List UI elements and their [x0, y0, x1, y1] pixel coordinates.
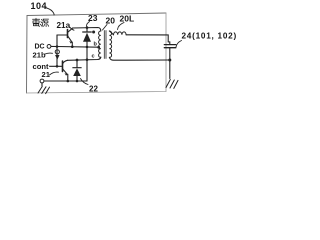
wire top rail — [73, 28, 101, 32]
svg-text:21b: 21b — [33, 51, 46, 60]
leader for 20L — [118, 23, 125, 30]
wire mid rail — [57, 46, 99, 49]
label 20 — [106, 15, 116, 25]
diode D23 — [86, 28, 88, 32]
svg-text:22: 22 — [89, 84, 98, 93]
node primary center tap — [97, 46, 100, 49]
node 21b emitter junction — [67, 80, 70, 83]
label c — [92, 54, 95, 60]
svg-text:20: 20 — [106, 15, 116, 25]
label 24(101, 102) — [182, 31, 237, 40]
wire diode 23 to bottom rail — [86, 42, 88, 81]
node diode 22 top junction — [76, 59, 79, 62]
transformer T20 secondary winding — [109, 31, 111, 57]
svg-text:21a: 21a — [57, 21, 71, 30]
label 21a — [57, 21, 71, 30]
node secondary return junction — [168, 59, 171, 62]
svg-text:21: 21 — [42, 70, 51, 79]
wire bottom rail — [44, 80, 87, 82]
leader for 21b with loop and arrow — [45, 52, 53, 55]
transformer phase dot — [92, 31, 95, 34]
leader for 24 — [176, 41, 182, 48]
wire base drive vertical — [56, 35, 58, 66]
leader for 104 — [45, 8, 54, 16]
leader for 21 lower — [50, 72, 59, 75]
wire inductor to cap corner — [126, 35, 170, 44]
svg-text:104: 104 — [31, 1, 48, 11]
node 21a emitter junction — [71, 45, 74, 48]
transistor Q 21a — [57, 34, 67, 36]
label DC — [35, 43, 45, 50]
leader for 21a — [70, 27, 75, 30]
leader for 23 — [87, 22, 90, 27]
label 104 — [31, 1, 48, 11]
label 22 — [89, 84, 98, 93]
ground left — [41, 83, 43, 86]
label 21b — [33, 51, 46, 60]
wire secondary top to inductor — [109, 31, 113, 35]
capacitor / lamp 24 plates — [164, 45, 176, 48]
terminal circle bottom — [40, 79, 44, 83]
svg-text:DC: DC — [35, 43, 45, 50]
leader for 22 — [81, 79, 89, 85]
label cont — [33, 62, 50, 71]
label 20L — [120, 13, 135, 23]
svg-text:20L: 20L — [120, 13, 135, 23]
DC terminal circle — [47, 45, 51, 49]
node mid vertical crossing — [86, 58, 89, 61]
node DC junction — [56, 45, 59, 48]
node diode 23 anode junction — [86, 46, 89, 49]
ground right — [166, 80, 178, 89]
wire secondary bottom return — [109, 57, 169, 60]
svg-text:c: c — [92, 54, 95, 60]
inductor 20L — [114, 32, 127, 35]
svg-text:24(101, 102): 24(101, 102) — [182, 31, 237, 40]
label 23 — [88, 13, 98, 23]
wire collector rail to primary bottom — [68, 57, 101, 60]
transistor Q 21b — [50, 65, 63, 67]
node diode 22 anode junction — [76, 80, 79, 83]
leader for 20 — [103, 25, 108, 31]
label 電源 (kanji drawn as strokes) — [33, 18, 49, 27]
transformer core — [104, 31, 106, 59]
diode D22 — [76, 60, 78, 68]
transformer T20 primary winding — [99, 31, 101, 57]
wire DC to vertical — [51, 45, 57, 47]
label 21 lower — [42, 70, 51, 79]
label b — [94, 42, 98, 48]
power supply box 104 outline — [27, 13, 167, 93]
